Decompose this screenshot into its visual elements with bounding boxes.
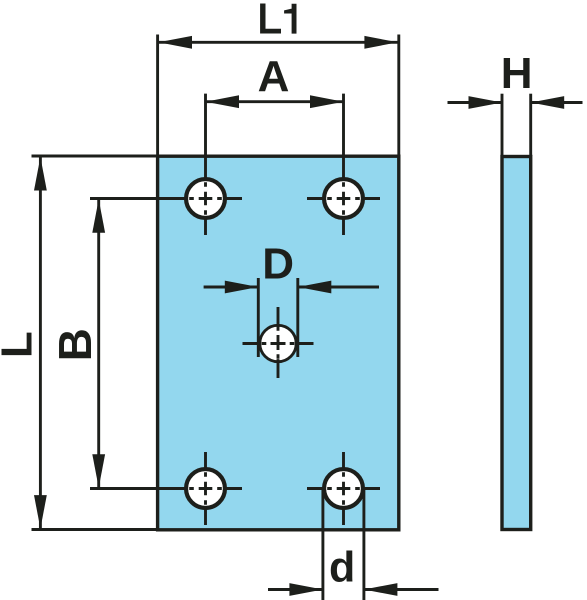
label L1 <box>260 4 296 34</box>
svg-text:B: B <box>49 328 101 361</box>
hole bottom-right <box>307 452 380 525</box>
svg-text:D: D <box>262 240 294 289</box>
hole top-left <box>169 162 242 235</box>
svg-text:d: d <box>329 544 355 592</box>
dimension L1 (top) <box>158 35 399 157</box>
dimension L (left outer) <box>32 156 158 530</box>
dimension B (left inner) <box>90 199 170 489</box>
dimension H (side view) <box>448 94 583 156</box>
plate front view <box>158 156 399 530</box>
svg-text:H: H <box>501 49 533 98</box>
svg-text:L: L <box>0 331 41 358</box>
hole center <box>243 307 314 380</box>
plate side view <box>502 157 531 530</box>
hole top-right <box>307 162 380 235</box>
dimension D (center hole) <box>204 278 379 357</box>
hole bottom-left <box>169 452 242 525</box>
dimension d (bottom hole) <box>268 489 439 600</box>
svg-text:A: A <box>258 52 290 101</box>
dimension A <box>206 94 344 162</box>
